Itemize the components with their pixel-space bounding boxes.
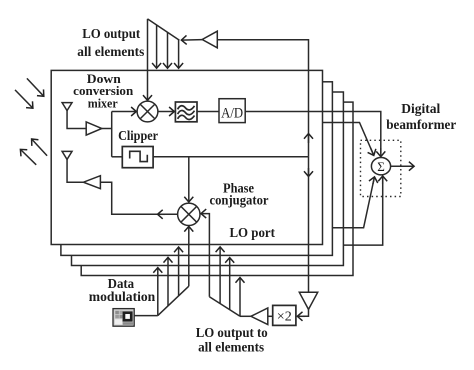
wire into clipper [112, 156, 123, 158]
LO distribution fan diagonal [148, 19, 180, 40]
element box 3 [72, 92, 344, 266]
svg-text:LO output: LO output [82, 26, 141, 41]
left fan arrow 2 [167, 257, 169, 306]
LO distribution fan: main vertical wire into mixer [147, 19, 149, 100]
transmit amplifier (points left) [83, 176, 100, 189]
element box 4 (back) [81, 102, 353, 275]
summer sigma circle [371, 158, 390, 175]
element box 2 [61, 82, 333, 256]
wire amp to x2 box [268, 315, 273, 317]
arrowhead element 2 into sigma [371, 148, 374, 156]
amplifier (receive path) [86, 122, 102, 135]
antenna A1 [62, 103, 86, 129]
element 3 output wire [332, 180, 374, 228]
clipper output wire to LO riser [153, 156, 308, 158]
svg-text:beamformer: beamformer [386, 117, 456, 132]
frequency doubler x2 box [273, 305, 296, 325]
wire mixer to filter [158, 111, 174, 113]
svg-text:LO port: LO port [229, 225, 275, 240]
svg-text:×2: ×2 [277, 309, 292, 324]
incoming wave arrow 2 [15, 90, 33, 108]
element box 1 (front) [51, 70, 322, 244]
mixer M1 (down conversion) [137, 101, 158, 122]
fan drop wire 1 [156, 25, 158, 68]
top amplifier (points left) [202, 31, 217, 48]
element 2 output wire [323, 123, 374, 155]
right LO fan diagonal [209, 297, 240, 317]
beamformer output arrow [391, 165, 415, 167]
svg-text:Digital: Digital [401, 101, 440, 116]
data modulation feed wire [134, 315, 158, 317]
phase conjugator top stem wire [188, 157, 190, 202]
mixer M2 (phase conjugator) [178, 203, 200, 225]
data modulation icon [113, 309, 134, 327]
left fan diagonal [158, 286, 189, 315]
left fan stem into conjugator LO port [188, 226, 190, 286]
wire fan to doubler amp [240, 315, 251, 317]
svg-text:mixer: mixer [88, 95, 118, 110]
up arrowhead on LO riser [308, 134, 310, 144]
junction vertical wire [111, 112, 113, 157]
right fan arrow 1 [219, 247, 221, 304]
antenna A2 [62, 151, 83, 182]
outgoing wave arrow 1 [32, 139, 47, 156]
wire amp1 output to junction [102, 128, 112, 130]
A/D converter box [219, 99, 245, 123]
conjugator output wire to transmit amp [100, 182, 177, 214]
left fan arrow 1 [157, 268, 159, 316]
incoming wave arrow 1 [27, 78, 44, 96]
LO riser lower segment [308, 157, 310, 293]
fan drop wire 3 [178, 40, 180, 68]
fan drop wire 2 [167, 33, 169, 69]
right fan arrow 3 [239, 278, 241, 317]
conjugator LO feed wire (right) [201, 214, 209, 297]
wire into down-conversion mixer [112, 111, 137, 113]
clipper box [122, 147, 153, 168]
svg-text:Σ: Σ [377, 159, 385, 174]
svg-text:LO output to: LO output to [196, 325, 268, 340]
down amplifier into doubler chain [299, 292, 317, 309]
svg-text:A/D: A/D [221, 105, 243, 121]
mid arrowhead on conjugator output [158, 213, 166, 215]
svg-text:all elements: all elements [77, 44, 144, 59]
wire A/D output to beamformer [245, 112, 381, 154]
arrowhead element 4 into sigma [382, 176, 384, 184]
down arrowhead on LO riser [308, 168, 310, 177]
digital beamformer dotted box [361, 140, 401, 196]
arrowhead into sigma top [380, 148, 382, 157]
element 4 output wire [343, 178, 382, 245]
right fan arrow 2 [229, 258, 231, 310]
wire from top amplifier to fan [181, 39, 202, 42]
filter F1 [175, 102, 197, 122]
arrowhead element 3 into sigma [373, 177, 375, 184]
svg-text:Clipper: Clipper [118, 128, 158, 143]
svg-text:modulation: modulation [89, 289, 156, 304]
wire x2 to LO riser bottom [303, 309, 309, 316]
left fan arrow 3 [178, 247, 180, 296]
doubler output amplifier (points left) [251, 308, 268, 325]
svg-text:conjugator: conjugator [210, 192, 269, 207]
wire from LO riser to top amplifier [217, 40, 308, 157]
wire filter to A/D [197, 111, 219, 113]
svg-text:all elements: all elements [198, 340, 264, 355]
outgoing wave arrow 2 [20, 149, 36, 164]
